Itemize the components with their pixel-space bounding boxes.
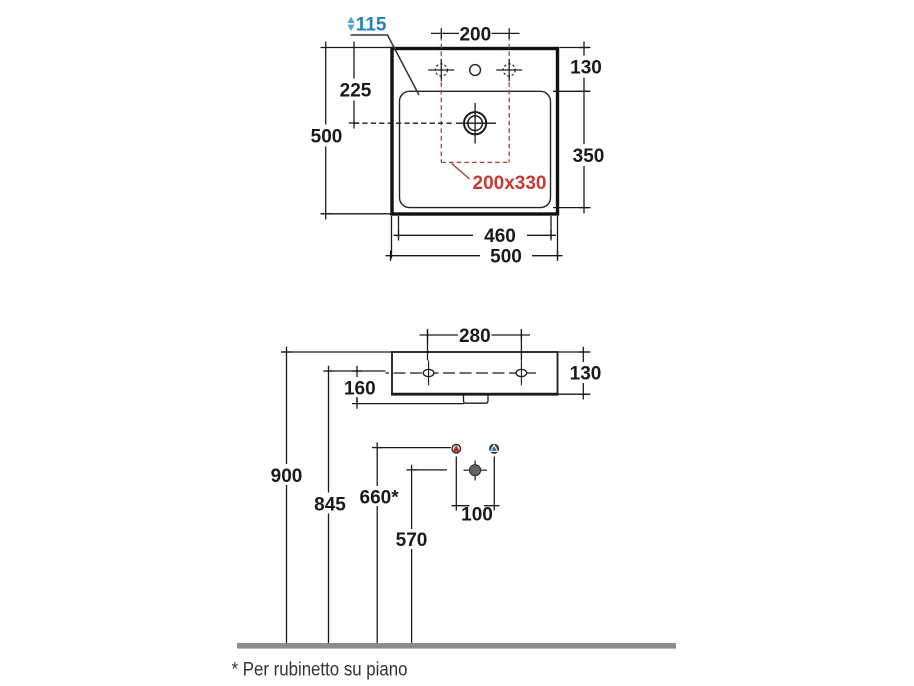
svg-text:500: 500 — [311, 126, 343, 147]
svg-text:350: 350 — [573, 146, 605, 167]
svg-text:225: 225 — [340, 80, 372, 101]
svg-text:900: 900 — [271, 466, 303, 487]
svg-text:500: 500 — [490, 247, 522, 268]
svg-text:115: 115 — [356, 15, 387, 36]
svg-text:660*: 660* — [360, 488, 400, 509]
svg-text:460: 460 — [484, 226, 516, 247]
svg-text:845: 845 — [314, 494, 346, 515]
svg-text:160: 160 — [344, 378, 376, 399]
svg-text:100: 100 — [461, 504, 493, 525]
svg-text:280: 280 — [459, 326, 491, 347]
svg-text:200: 200 — [459, 24, 491, 45]
svg-text:130: 130 — [570, 57, 602, 78]
svg-text:200x330: 200x330 — [473, 173, 547, 194]
svg-text:* Per rubinetto su piano: * Per rubinetto su piano — [232, 660, 408, 681]
svg-text:570: 570 — [396, 530, 428, 551]
svg-text:130: 130 — [570, 363, 602, 384]
